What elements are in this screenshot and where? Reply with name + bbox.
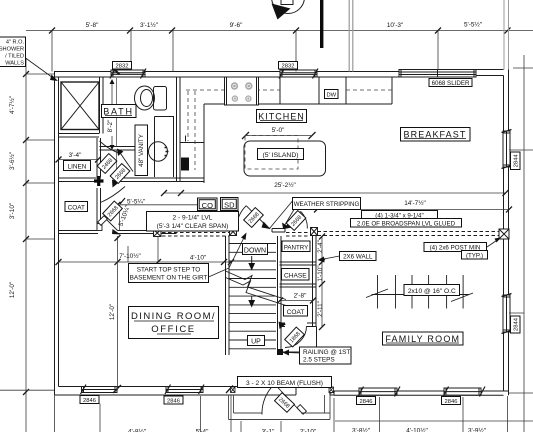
dim line island 5ft <box>246 135 311 137</box>
label window 2832 A <box>113 62 132 70</box>
wall coat bottom <box>280 323 317 327</box>
label 2846 A <box>164 396 183 405</box>
window 2844 right B <box>502 294 512 334</box>
dim line bottom <box>335 420 533 422</box>
svg-text:5'-5¼": 5'-5¼" <box>127 199 145 206</box>
svg-text:2846: 2846 <box>360 399 373 405</box>
svg-text:3'-9½": 3'-9½" <box>468 427 486 432</box>
svg-text:KITCHEN: KITCHEN <box>258 112 305 122</box>
post beam left <box>154 230 162 237</box>
window 2846 bottom C <box>443 387 485 397</box>
svg-text:2846: 2846 <box>445 399 458 405</box>
dim line hall 7ft <box>59 234 233 262</box>
label 5ft island <box>258 149 304 160</box>
label 3 2x10 beam flush <box>238 377 332 388</box>
svg-text:BATH: BATH <box>103 107 134 117</box>
svg-text:2832: 2832 <box>282 64 295 70</box>
dim ticks linen <box>56 157 102 163</box>
label DOWN <box>243 244 268 255</box>
post beam right <box>499 229 509 239</box>
leader railing <box>283 350 300 356</box>
label KITCHEN <box>257 110 307 123</box>
beam dashes left <box>162 233 229 237</box>
svg-text:1'-10": 1'-10" <box>317 265 324 281</box>
toilet <box>135 86 167 110</box>
label LVL beam <box>147 212 239 232</box>
post stairs top right <box>311 228 318 236</box>
svg-text:DOWN: DOWN <box>244 247 266 254</box>
svg-text:RAILING @ 1ST: RAILING @ 1ST <box>303 349 350 356</box>
svg-text:CHASE: CHASE <box>284 272 307 279</box>
wall top exterior <box>54 70 504 78</box>
label LINEN <box>64 161 91 171</box>
window 2846 bottom A <box>165 385 204 395</box>
svg-text:3'-4": 3'-4" <box>69 152 82 159</box>
label COAT left <box>65 202 88 212</box>
wall bottom dining <box>55 387 335 396</box>
beam dashes family <box>286 232 499 237</box>
wall cross black hall <box>94 176 104 186</box>
wall closets right <box>313 236 317 327</box>
svg-text:START TOP STEP TO: START TOP STEP TO <box>137 267 201 274</box>
svg-text:2844: 2844 <box>514 154 520 168</box>
stair break lines <box>226 271 287 306</box>
post stairs top left <box>230 228 237 236</box>
dim ticks closets right <box>319 234 325 331</box>
label window 2832 B <box>279 62 298 70</box>
label FAMILY ROOM <box>383 332 464 345</box>
label 2x10 16 oc <box>404 285 460 296</box>
wall stairs top stub <box>272 229 285 233</box>
stair treads <box>229 244 276 349</box>
svg-text:DW: DW <box>326 93 336 99</box>
wall shower bottom <box>59 134 100 138</box>
svg-text:10'-3": 10'-3" <box>387 22 403 29</box>
svg-text:3 - 2 X 10 BEAM (FLUSH): 3 - 2 X 10 BEAM (FLUSH) <box>246 380 323 387</box>
svg-text:4" R.O.: 4" R.O. <box>6 40 25 46</box>
svg-text:COAT: COAT <box>287 309 305 316</box>
dim line coat 2ft8 <box>280 300 313 302</box>
svg-text:5'-8": 5'-8" <box>86 22 99 29</box>
leader post min <box>487 238 501 248</box>
wall bottom family <box>330 391 509 395</box>
stair newel black <box>277 349 283 355</box>
dim line dining interior 12ft <box>117 236 119 390</box>
svg-text:3'-1½": 3'-1½" <box>140 21 158 29</box>
dim line right <box>523 55 525 432</box>
dim stubs left <box>0 74 54 390</box>
dim line family 14ft <box>317 209 509 211</box>
label BREAKFAST <box>401 128 471 142</box>
door diamond 2668 rear <box>275 393 295 413</box>
dim ticks left <box>23 71 29 395</box>
svg-text:2.0E OF BROADSPAN LVL GLUED: 2.0E OF BROADSPAN LVL GLUED <box>357 220 456 227</box>
svg-text:WEATHER STRIPPING: WEATHER STRIPPING <box>294 201 360 208</box>
joist symbol family <box>366 275 473 309</box>
wall left exterior <box>55 72 59 396</box>
svg-text:(5'-3 1/4" CLEAR SPAN): (5'-3 1/4" CLEAR SPAN) <box>157 223 229 230</box>
door exterior rear 2668 <box>262 384 335 415</box>
label 2846 A0 <box>80 396 99 405</box>
dim extension top ticks <box>49 28 511 34</box>
svg-text:7'-10½": 7'-10½" <box>119 252 141 260</box>
wall hall south (bath bottom) <box>59 178 205 182</box>
label 48in vanity <box>135 125 148 176</box>
label 4 lvl plies <box>362 211 438 220</box>
bath interior line <box>116 78 118 178</box>
svg-text:12'-0": 12'-0" <box>109 304 116 320</box>
label start top step <box>129 264 209 283</box>
dim ticks family 14ft <box>314 207 512 213</box>
island dashed overlay <box>245 136 298 170</box>
label 2844 B <box>511 316 521 333</box>
leader 2x6 wall <box>318 256 340 263</box>
svg-text:3'-10": 3'-10" <box>9 203 16 219</box>
leader 8ft2 arrows <box>110 79 115 150</box>
vanity <box>155 117 174 178</box>
svg-text:2.5 STEPS: 2.5 STEPS <box>303 357 335 364</box>
dim line linen 3ft4 <box>59 159 99 161</box>
svg-text:14'-7½": 14'-7½" <box>404 199 426 207</box>
svg-text:5'-0": 5'-0" <box>272 127 285 134</box>
door diamond 2668 hall lower <box>103 201 123 221</box>
grey wall lines above top <box>349 0 353 72</box>
wall linen right <box>97 138 101 229</box>
door dining leaf and jamb <box>97 216 121 235</box>
wall stairs right <box>278 236 282 352</box>
sink bath <box>149 142 169 161</box>
svg-text:/ TILED: / TILED <box>5 54 24 60</box>
shower <box>61 82 99 130</box>
label COAT center <box>284 306 308 317</box>
svg-text:DINING ROOM/: DINING ROOM/ <box>131 311 216 322</box>
dim line hall vert 3ft10 <box>119 205 121 231</box>
door arc hall 2668 <box>101 180 126 203</box>
dim extension verticals bottom <box>55 395 508 432</box>
wall stairs left <box>226 236 230 355</box>
label BATH <box>102 105 137 118</box>
dim ticks dining interior <box>115 235 121 241</box>
label CO <box>198 198 218 211</box>
label 2846 C <box>442 397 461 406</box>
svg-text:(5' ISLAND): (5' ISLAND) <box>262 152 298 159</box>
leader start top step <box>209 233 247 278</box>
door diamond 2668 stairs <box>244 208 264 228</box>
label UP <box>248 336 265 346</box>
svg-text:3'-8½": 3'-8½" <box>352 427 370 432</box>
svg-text:2 - 9-1/4" LVL: 2 - 9-1/4" LVL <box>173 215 213 222</box>
svg-text:PANTRY: PANTRY <box>284 244 309 251</box>
svg-text:4'-10": 4'-10" <box>190 255 206 262</box>
label railing <box>300 347 352 364</box>
island <box>244 141 326 176</box>
label SD <box>221 198 239 211</box>
door diamond 1868 coat <box>285 327 305 347</box>
svg-text:4'-8½": 4'-8½" <box>128 428 146 432</box>
door arc stairs left 2668 <box>237 206 271 229</box>
label weather stripping <box>293 198 361 210</box>
post beam flush right <box>329 387 334 393</box>
counter kitchen top <box>180 77 392 183</box>
svg-text:2844: 2844 <box>514 317 520 331</box>
svg-text:REF: REF <box>183 159 189 169</box>
label typ <box>462 251 488 260</box>
svg-text:9'-6": 9'-6" <box>230 22 243 29</box>
wall dining top <box>59 231 177 234</box>
svg-text:2846: 2846 <box>167 399 180 405</box>
label PANTRY <box>282 241 310 252</box>
svg-text:2'-11": 2'-11" <box>317 301 324 317</box>
svg-text:CO: CO <box>202 201 213 210</box>
label 6068 slider <box>429 79 472 88</box>
svg-text:WALLS: WALLS <box>5 61 24 67</box>
window 2832 A <box>110 69 146 79</box>
dim line bath 8ft <box>111 80 113 149</box>
svg-text:2'-10": 2'-10" <box>300 429 316 432</box>
svg-text:2X6 WALL: 2X6 WALL <box>343 254 373 261</box>
label 2846 B <box>357 397 376 406</box>
wall right exterior <box>504 70 509 396</box>
svg-text:25'-2½": 25'-2½" <box>274 181 296 189</box>
dim tick bottom window <box>113 385 233 393</box>
dim line kitchen 25ft <box>164 192 505 194</box>
label 2x6 post min <box>424 243 487 252</box>
svg-text:4'-10½": 4'-10½" <box>406 427 428 432</box>
wall shower right <box>100 77 104 134</box>
dim line top <box>26 30 533 32</box>
cabinet dashes kitchen <box>186 90 392 170</box>
svg-text:48" VANITY: 48" VANITY <box>138 134 145 167</box>
svg-text:5'-4": 5'-4" <box>196 429 209 432</box>
svg-text:BASEMENT ON THE GIRT: BASEMENT ON THE GIRT <box>130 275 208 282</box>
wall pantry bottom <box>280 262 317 265</box>
door arc coat 1868 <box>279 322 307 348</box>
wall chase bottom <box>280 284 317 287</box>
label DW <box>325 90 339 99</box>
grey wall extension right top <box>504 0 509 70</box>
svg-text:2x10 @ 16" O.C: 2x10 @ 16" O.C <box>408 288 456 295</box>
dim stubs right <box>509 68 533 393</box>
svg-text:6068 SLIDER: 6068 SLIDER <box>432 80 470 87</box>
svg-text:LINEN: LINEN <box>68 164 87 171</box>
door diamond 2668 pantry <box>286 211 306 231</box>
svg-text:(TYP.): (TYP.) <box>466 252 483 259</box>
label 2x6 wall <box>340 252 377 261</box>
svg-text:FAMILY ROOM: FAMILY ROOM <box>385 334 460 344</box>
dim ticks kitchen 25ft <box>161 190 509 196</box>
wall bath door <box>100 147 136 151</box>
dim line closets right <box>321 236 323 327</box>
window 2832 B <box>279 69 318 79</box>
stove <box>225 77 259 105</box>
label CHASE <box>282 269 310 281</box>
refrigerator black label <box>181 158 189 171</box>
svg-text:COAT: COAT <box>68 205 85 212</box>
circle section marker top <box>272 0 305 20</box>
svg-text:8'-2": 8'-2" <box>107 120 114 133</box>
svg-text:BREAKFAST: BREAKFAST <box>404 130 467 140</box>
svg-text:SD: SD <box>224 201 235 210</box>
svg-text:2846: 2846 <box>83 398 96 404</box>
leader weather stripping <box>270 199 295 229</box>
dim ticks coat <box>277 298 316 304</box>
window 2846 A0 <box>81 385 118 395</box>
stair down arrow <box>248 256 255 308</box>
heavy cut line top <box>320 0 323 48</box>
dim tick hall 5ft5 <box>115 198 126 208</box>
label dining room office <box>129 307 219 339</box>
svg-text:4'-7½": 4'-7½" <box>8 96 16 114</box>
window 2844 right A <box>502 130 512 169</box>
dim extension verticals top <box>52 31 438 72</box>
door diamond 2468 <box>97 154 117 174</box>
svg-text:OFFICE: OFFICE <box>151 324 195 335</box>
wall bath-kitchen <box>177 77 181 182</box>
steps outside rear door <box>229 395 331 420</box>
post beam flush left <box>231 387 236 393</box>
label 2844 A <box>511 152 521 170</box>
svg-text:2'-8": 2'-8" <box>294 293 307 300</box>
dim line hall 5ft5 <box>118 204 205 206</box>
svg-text:3'-1": 3'-1" <box>262 429 275 432</box>
svg-text:SHOWER: SHOWER <box>0 47 24 53</box>
door arc pantry 2668 <box>284 212 308 230</box>
window slider 6068 <box>399 70 476 78</box>
dim ticks island <box>242 132 316 139</box>
dim ticks hall <box>56 259 235 265</box>
svg-text:3'-6½": 3'-6½" <box>8 152 16 170</box>
svg-text:12'-0": 12'-0" <box>9 282 16 298</box>
label broadspan glued <box>351 219 462 228</box>
door diamond 2668 hall upper <box>110 164 130 184</box>
window 2846 bottom B <box>358 387 400 397</box>
leader shower label <box>26 58 59 81</box>
label 4in RO shower tiled walls <box>0 37 26 67</box>
svg-text:2832: 2832 <box>116 64 129 70</box>
svg-text:2'-4": 2'-4" <box>317 240 324 253</box>
svg-text:5'-5½": 5'-5½" <box>464 21 482 29</box>
dim line left <box>25 58 27 432</box>
door arc bath 2468 <box>100 141 134 172</box>
svg-text:UP: UP <box>251 339 261 346</box>
wall family west rail <box>278 327 317 356</box>
